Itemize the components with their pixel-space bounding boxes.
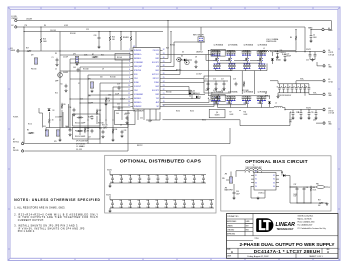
svg-text:C16: C16 [69,107,72,109]
svg-text:C43: C43 [138,175,141,177]
capacitor group A3 [242,50,252,56]
ferrite bead FB1 [290,184,330,189]
svg-text:C38: C38 [306,187,309,189]
capacitor C22 input bulk [282,52,291,62]
wire INTVCC distribution [24,27,163,144]
svg-text:BG1: BG1 [156,70,159,72]
svg-text:VOUT1: VOUT1 [107,170,112,172]
svg-text:71.5K: 71.5K [313,189,317,191]
ground symbols left field [58,63,123,142]
capacitor group lower A3 [243,64,251,70]
transistor QA4 [258,51,263,64]
svg-text:26: 26 [163,73,165,75]
svg-text:R4: R4 [290,37,292,39]
misc top-left labels [44,25,89,35]
svg-text:E11: E11 [328,108,331,110]
svg-text:10UF: 10UF [128,207,132,209]
terminal E8 PGOOD [13,148,24,152]
wire TG1/SW1/BOOST1 to top stage [163,21,215,71]
svg-text:VOUT1: VOUT1 [328,52,333,54]
svg-text:21: 21 [163,93,165,95]
svg-text:PGOOD: PGOOD [153,50,160,52]
transistor QB3 [244,96,249,108]
svg-text:V2: V2 [255,179,257,181]
svg-text:0.01UF: 0.01UF [120,99,125,101]
svg-text:D9: D9 [53,110,55,112]
svg-text:LTC3728EUH: LTC3728EUH [133,111,144,113]
svg-text:E12: E12 [328,122,331,124]
capacitor C1 [52,57,59,66]
svg-text:1000PF: 1000PF [63,72,68,74]
jumper JP2 PGOOD [31,55,38,71]
svg-text:2-PHASE DUAL OUTPUT PO WER SUP: 2-PHASE DUAL OUTPUT PO WER SUPPLY [239,242,335,247]
svg-text:R28: R28 [166,48,169,50]
svg-text:C35: C35 [311,112,314,114]
svg-text:10UF: 10UF [173,207,177,209]
svg-text:V3: V3 [255,182,257,184]
svg-text:C46: C46 [164,200,167,202]
svg-text:R31: R31 [126,37,129,39]
svg-text:L1: L1 [263,48,265,50]
svg-text:10UF: 10UF [174,182,178,184]
svg-text:C42: C42 [128,200,131,202]
svg-text:TG2: TG2 [156,98,159,100]
svg-text:JP5: PULSE SKIP: JP5: PULSE SKIP [76,141,88,143]
svg-text:OPTIONAL BIAS CIRCUIT: OPTIONAL BIAS CIRCUIT [245,159,308,164]
wire inter-stage verticals [208,51,254,96]
svg-text:EXTVCC: EXTVCC [152,74,160,76]
svg-text:15K: 15K [100,77,103,79]
svg-text:D6: D6 [193,91,195,93]
svg-text:CMDSH-3: CMDSH-3 [196,52,203,54]
resistor R9 [61,103,65,109]
optional caps outline box A [211,49,225,56]
svg-text:CURRENT OUTPUT.: CURRENT OUTPUT. [18,220,44,222]
svg-text:JP2: JP2 [31,55,34,57]
svg-text:C10: C10 [140,118,143,120]
svg-text:1000PF: 1000PF [88,103,93,105]
svg-text:18: 18 [163,105,165,107]
svg-text:VOSENSE2: VOSENSE2 [134,94,143,96]
svg-text:E3: E3 [11,48,13,50]
resistor R17 [26,48,32,52]
svg-text:1630 McCarthy Blvd.: 1630 McCarthy Blvd. [298,215,314,218]
svg-text:R6: R6 [44,25,46,27]
svg-text:C50: C50 [201,175,204,177]
transistor Q7 circled [58,73,63,78]
svg-text:C48: C48 [183,175,186,177]
svg-text:C7: C7 [78,83,80,85]
svg-text:S2: S2 [273,179,275,181]
svg-text:10UF: 10UF [146,207,150,209]
svg-text:E2: E2 [12,25,14,27]
svg-text:C39: C39 [289,120,292,122]
svg-text:MKT: MKT [246,225,249,227]
svg-text:10UF: 10UF [164,207,168,209]
ground mid bank [276,95,279,98]
svg-text:C43: C43 [137,200,140,202]
svg-text:C3: C3 [120,125,122,127]
network box R23 R24 [115,111,136,125]
svg-text:ITH1: ITH1 [134,78,138,80]
resistor R35 inline [102,124,108,128]
svg-text:R9: R9 [64,104,66,106]
svg-text:V1: V1 [255,175,257,177]
svg-text:A: A [327,250,329,254]
svg-text:VIN: VIN [222,178,225,180]
svg-text:10UF: 10UF [110,207,114,209]
terminal E4 VOUT1 [306,49,334,57]
capacitor bank C28-C33 [277,84,311,97]
diode D7 circled [176,57,182,61]
transistor QA3 [244,51,249,64]
svg-text:E10: E10 [328,93,331,95]
svg-text:C40: C40 [110,175,113,177]
svg-text:10UF: 10UF [209,207,213,209]
svg-text:C48: C48 [182,200,185,202]
capacitor C6 [61,84,68,93]
svg-text:Q6: Q6 [216,112,218,114]
wire lower left runs [39,104,160,131]
resistor R5 [27,130,34,134]
svg-text:SHEET 1 OF 1: SHEET 1 OF 1 [309,256,323,258]
diode D2 B340A [265,93,271,107]
wire VIN rail top [17,21,331,30]
wire sense feedback loop [163,112,291,126]
capacitor group lower A1 [213,64,221,70]
svg-text:E9: E9 [328,79,330,81]
optional bias circuit box [221,156,331,211]
svg-text:C14: C14 [80,99,83,101]
capacitor C35 [307,110,313,120]
svg-text:C22: C22 [287,54,290,56]
svg-text:27: 27 [163,69,165,71]
svg-text:C12: C12 [205,79,208,81]
wire gate bus top stage [206,55,258,61]
svg-text:R5: R5 [27,130,29,132]
svg-text:R27: R27 [318,200,321,202]
svg-text:10UF: 10UF [155,207,159,209]
diode D5 [193,93,198,98]
wire drain rail A [208,50,268,52]
svg-text:C51: C51 [209,200,212,202]
boxed part R5 10K [115,54,130,61]
svg-text:TITLE: TITLE [255,238,259,240]
svg-text:SENSE1+: SENSE1+ [134,54,142,56]
svg-text:D2: D2 [265,93,267,95]
svg-text:25: 25 [163,77,165,79]
diode D4 [281,172,290,188]
capacitor C19 [115,84,120,96]
wire BG2/TG2 to bottom stage [163,91,215,107]
mosfet Q5 [211,93,220,100]
svg-text:C45: C45 [156,175,159,177]
resistor R27 [290,200,329,207]
svg-text:R24 0: R24 0 [190,111,194,113]
capacitor group A1 [211,50,221,56]
svg-text:C36: C36 [236,191,239,193]
size / drawing number / rev row [227,248,329,254]
svg-text:VOUT2: VOUT2 [328,110,333,112]
wire SW2 node [163,105,261,108]
svg-text:C15 470PF: C15 470PF [55,117,62,119]
diode D6 CMDSH-3 [189,90,200,98]
svg-text:10UF: 10UF [201,182,205,184]
wire drain rail B [208,95,268,97]
svg-text:R17: R17 [26,48,29,50]
capacitor C36 bias in [232,184,239,200]
svg-text:1: 1 [129,49,130,51]
diode D8 circled [185,60,189,64]
svg-text:E7: E7 [13,139,15,141]
optional distributed caps box [105,155,216,213]
wire IC top feed [135,32,137,48]
svg-text:C46: C46 [165,175,168,177]
svg-text:3.3VOUT: 3.3VOUT [134,86,141,88]
terminal E9 VOUT tied [323,79,333,84]
svg-text:10K: 10K [108,100,111,102]
wire VIN sense rail [17,26,305,28]
resistor R33 [84,127,89,133]
svg-text:C1: C1 [52,57,54,59]
svg-text:22: 22 [163,89,165,91]
resistor R31 [126,32,132,51]
capacitor group lower A2 [228,64,236,70]
svg-text:1000PF: 1000PF [125,113,130,115]
svg-text:R26: R26 [313,187,316,189]
svg-text:R23 0: R23 0 [176,111,180,113]
svg-text:C22: C22 [99,128,102,130]
svg-text:VOUT1: VOUT1 [306,49,311,51]
mid cluster outline box [204,76,231,93]
svg-text:E8: E8 [13,148,15,150]
svg-text:ITH2: ITH2 [134,90,138,92]
svg-text:6.3V: 6.3V [294,196,297,198]
svg-text:C49: C49 [192,175,195,177]
diode D3 [180,56,192,62]
svg-text:RUN/SS1: RUN/SS1 [134,50,141,52]
svg-text:SGND: SGND [134,82,140,84]
wire IC bottom stubs [138,109,156,122]
svg-text:10UF: 10UF [129,182,133,184]
transistor QB1 [214,96,219,108]
svg-text:100K: 100K [84,55,87,57]
transistor QA2 [227,51,232,64]
svg-text:C2 1UF: C2 1UF [63,57,68,59]
terminal E3 SGND [11,48,20,52]
svg-text:Phone: (408)432-1900: Phone: (408)432-1900 [298,222,315,224]
svg-text:20K: 20K [87,130,90,132]
svg-text:C34: C34 [296,112,299,114]
svg-text:D3: D3 [181,56,183,58]
svg-text:C50: C50 [200,200,203,202]
svg-text:C40: C40 [110,200,113,202]
capacitor C43 [73,67,79,72]
svg-text:C45: C45 [155,200,158,202]
wire PGOOD rail [24,110,128,151]
date / sheet row [227,254,323,259]
capacitor C24 [275,50,284,59]
svg-text:C47: C47 [174,175,177,177]
svg-text:3. INSTALL SHUNTS ON JP1-JP5: 3. INSTALL SHUNTS ON JP1-JP5 PIN 2 AND 3… [14,225,78,228]
svg-text:10UF: 10UF [200,207,204,209]
svg-text:19: 19 [163,101,165,103]
svg-text:CHECKED: CHECKED [227,229,234,231]
svg-text:E4: E4 [328,50,330,52]
svg-text:T1: T1 [253,165,255,167]
svg-text:OPT: OPT [289,122,292,124]
svg-text:Si4874: Si4874 [215,114,220,116]
compensation network box 1 [73,114,101,126]
wire VOUT2 run [285,108,322,110]
svg-text:C44: C44 [116,113,119,115]
terminal E5 GND [317,62,333,69]
terminal E2 VIN sense [12,25,28,28]
svg-text:C5: C5 [55,69,57,71]
svg-text:20: 20 [163,97,165,99]
svg-text:30: 30 [163,57,165,59]
left field value labels [13,45,206,139]
svg-text:C30 1UF: C30 1UF [50,30,56,32]
capacitor row VOUT2 distributed [110,200,214,209]
capacitor C4 [309,30,316,43]
resistor R14 [112,128,117,134]
IC U2 bias regulator [251,171,279,190]
svg-text:BG2: BG2 [156,86,159,88]
svg-text:R21 100K: R21 100K [242,90,249,92]
svg-text:C43: C43 [73,67,76,69]
capacitor group B4 [257,96,267,102]
svg-text:OPTIONAL DISTRIBUTED CAPS: OPTIONAL DISTRIBUTED CAPS [120,158,202,164]
svg-text:BOOST1: BOOST1 [152,62,159,64]
svg-text:OPT: OPT [88,96,91,98]
svg-text:C41: C41 [119,200,122,202]
wire mid bank to terminals [270,81,322,97]
wire BG1/EXTVCC runs [163,58,233,95]
svg-text:E6: E6 [328,28,330,30]
svg-text:E1 VIN: E1 VIN [12,16,18,18]
resistor R2 [92,54,98,58]
resistor R30 [120,32,126,51]
wire SGND run [20,50,133,52]
svg-text:SW1: SW1 [155,58,159,60]
capacitor C26 [94,32,101,49]
svg-text:31: 31 [163,53,165,55]
svg-text:SENSE2-: SENSE2- [134,98,142,100]
svg-text:NOTES: UNLESS OTHERWISE SPECI: NOTES: UNLESS OTHERWISE SPECIFIED [14,198,100,202]
svg-text:INTVCC: INTVCC [153,78,160,80]
svg-text:R10 20K: R10 20K [83,69,89,71]
terminal E7 EXTVCC [13,139,24,145]
svg-text:0.003: 0.003 [244,114,248,116]
svg-text:C37: C37 [294,184,297,186]
svg-text:23: 23 [163,85,165,87]
capacitor group B3 [242,96,252,102]
svg-text:BOOST2: BOOST2 [152,90,159,92]
svg-text:R12: R12 [99,110,102,112]
capacitor C18 + resistor R21 [233,79,249,92]
capacitor C25 output [306,52,316,62]
svg-text:PIN 1 AND 2.: PIN 1 AND 2. [18,230,35,233]
capacitor C8 [194,57,197,69]
terminal E11 VOUT2 [306,107,334,114]
svg-text:C9: C9 [102,69,104,71]
svg-text:C17: C17 [221,79,224,81]
svg-text:R35 15K: R35 15K [102,124,108,126]
terminal E1 VIN power input [12,16,34,22]
svg-text:R7: R7 [230,112,232,114]
resistor labels bottom stage [230,112,248,116]
svg-text:S4: S4 [273,186,275,188]
wire VOUT1 run [275,52,323,53]
jumper JP3 FCB [73,54,79,63]
wire SW1 node [218,52,261,63]
capacitor C34 [296,110,303,120]
svg-text:10UF: 10UF [119,182,123,184]
svg-text:IF TWO OUTPUTS ARE TIED TOGET: IF TWO OUTPUTS ARE TIED TOGETHER FOR HIG… [18,216,98,219]
resistor R8 [105,97,110,103]
capacitor C16 [69,107,76,116]
svg-text:C4: C4 [313,35,315,37]
svg-text:SENSE2+: SENSE2+ [134,102,142,104]
svg-text:VOS-: VOS- [313,92,317,94]
title block [227,214,339,259]
svg-text:R22: R22 [101,55,104,57]
svg-text:R29 10: R29 10 [170,45,175,47]
svg-text:U2: U2 [255,171,257,173]
svg-text:R13 10K: R13 10K [110,77,116,79]
svg-text:C41: C41 [119,175,122,177]
svg-text:10UF: 10UF [192,182,196,184]
svg-text:29: 29 [163,61,165,63]
svg-text:C28-C33 180UF 4V: C28-C33 180UF 4V [278,95,291,97]
svg-text:10UF: 10UF [156,182,160,184]
svg-text:EXTVCC: EXTVCC [13,141,20,143]
svg-text:CMDSH-3: CMDSH-3 [193,93,200,95]
svg-text:C18: C18 [233,79,236,81]
svg-text:SENSE1-: SENSE1- [134,58,142,60]
svg-text:10UF: 10UF [313,37,317,39]
svg-text:R11: R11 [244,112,247,114]
svg-text:R14: R14 [115,129,118,131]
svg-text:R32 100: R32 100 [166,92,172,94]
svg-text:30: 30 [52,120,54,122]
capacitor C20 [117,104,120,111]
svg-text:0.1UF: 0.1UF [221,90,225,92]
svg-text:RUN/SS2: RUN/SS2 [134,106,141,108]
svg-text:C42: C42 [129,175,132,177]
svg-text:C47: C47 [173,200,176,202]
svg-text:D3: D3 [182,52,184,54]
svg-text:1UF: 1UF [205,90,208,92]
svg-text:C44: C44 [147,175,150,177]
svg-text:24: 24 [163,81,165,83]
capacitor group B1 [211,96,221,102]
transformer T1 [236,165,282,177]
svg-text:JP6: JP6 [225,188,228,190]
svg-text:C8: C8 [195,57,197,59]
svg-text:C49: C49 [191,200,194,202]
svg-text:JP6: JP6 [225,174,228,176]
svg-text:R19 15K: R19 15K [98,123,104,125]
svg-text:ENG: ENG [246,229,249,231]
transistor QB2 [227,96,232,108]
svg-text:Friday, August 02, 2002: Friday, August 02, 2002 [248,255,270,258]
svg-text:Milpitas, CA 95035: Milpitas, CA 95035 [298,218,312,221]
diode D1 B340A [271,52,281,64]
svg-text:10UF: 10UF [137,207,141,209]
svg-text:FLTCPL: FLTCPL [13,117,18,119]
